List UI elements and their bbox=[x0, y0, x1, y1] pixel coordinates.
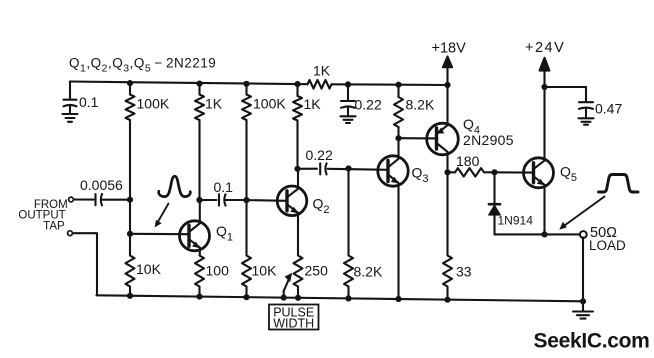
wire: node to Q4 base bbox=[399, 137, 437, 139]
terminal: FROM input bbox=[69, 197, 74, 202]
node dot: rail/+18V bbox=[444, 82, 450, 88]
node dot: Q4 collector node bbox=[444, 169, 450, 175]
node dot: rail/ground bbox=[580, 298, 586, 304]
arrow: spike to Q1 base bbox=[158, 204, 169, 223]
node dot: Q1 base node bbox=[127, 231, 133, 237]
node dot: Q5 emitter node bbox=[541, 231, 547, 237]
label: PULSE WIDTH box bbox=[269, 305, 319, 331]
transistor Q3 bbox=[378, 138, 408, 299]
svg-text:8.2K: 8.2K bbox=[354, 264, 383, 280]
diode 1N914 bbox=[489, 172, 500, 234]
node dot: rail/1K#2 bbox=[294, 81, 300, 87]
ground (under C 0.22) bbox=[341, 115, 356, 117]
svg-text:Q1,Q2,Q3,Q5 − 2N2219: Q1,Q2,Q3,Q5 − 2N2219 bbox=[69, 56, 216, 75]
svg-text:1K: 1K bbox=[304, 96, 322, 112]
wire: cap to node bbox=[102, 199, 130, 201]
wire: node to Q1 base bbox=[130, 233, 188, 235]
svg-text:+18V: +18V bbox=[432, 41, 467, 57]
svg-text:LOAD: LOAD bbox=[589, 238, 626, 253]
capacitor C 0.47 bbox=[585, 87, 587, 102]
node dot: rail/wiper bbox=[281, 295, 287, 301]
capacitor C 0.0056 bbox=[94, 194, 96, 205]
wire: load to ground rail bbox=[582, 237, 584, 301]
wire: input to cap bbox=[74, 198, 94, 200]
node dot: rail/8.2K#2 bbox=[345, 295, 351, 301]
resistor 8.2K (lower) bbox=[347, 169, 349, 256]
capacitor C 0.22 (interstage) bbox=[319, 163, 321, 174]
node dot: rail/0.22 bbox=[345, 81, 351, 87]
svg-text:180: 180 bbox=[456, 153, 480, 169]
node dot: rail/33 bbox=[444, 297, 450, 303]
node dot: rail/250 bbox=[295, 295, 301, 301]
node dot: +24V/0.47 bbox=[541, 84, 547, 90]
svg-text:0.0056: 0.0056 bbox=[80, 177, 123, 193]
node dot: rail/8.2K bbox=[395, 82, 401, 88]
svg-text:100K: 100K bbox=[137, 96, 170, 112]
wire: branch 1 vertical bbox=[129, 120, 131, 256]
svg-text:33: 33 bbox=[456, 264, 472, 280]
resistor 100 (Q1 emitter) bbox=[195, 256, 204, 287]
ground (under C 0.47) bbox=[579, 117, 594, 119]
wire: Q2 collector line to Q3 base bbox=[298, 168, 318, 170]
svg-text:TAP: TAP bbox=[43, 221, 65, 233]
node dot: rail/1K bbox=[196, 81, 202, 87]
resistor 100K (first branch) bbox=[129, 83, 131, 94]
waveform: spike pulse near Q1 bbox=[159, 176, 191, 196]
svg-text:WIDTH: WIDTH bbox=[273, 317, 314, 331]
svg-text:2N2905: 2N2905 bbox=[463, 132, 514, 148]
wire: node to Q2 base bbox=[247, 199, 288, 202]
arrow: pulse to load wire bbox=[565, 197, 605, 226]
svg-text:0.22: 0.22 bbox=[306, 147, 333, 163]
node dot: Q4 base node bbox=[395, 135, 401, 141]
svg-text:10K: 10K bbox=[252, 263, 278, 279]
svg-text:0.1: 0.1 bbox=[79, 94, 99, 110]
svg-text:SeekIC.com: SeekIC.com bbox=[534, 330, 650, 353]
resistor 180 bbox=[448, 171, 456, 173]
svg-text:1N914: 1N914 bbox=[498, 214, 534, 228]
capacitor C 0.1 (interstage) bbox=[218, 194, 220, 205]
resistor 1K (second branch) bbox=[198, 84, 200, 95]
wire: top supply rail right section bbox=[332, 83, 448, 86]
ground (main, rail right end) bbox=[582, 301, 584, 311]
svg-text:Q3: Q3 bbox=[412, 165, 429, 186]
wire: bottom ground rail bbox=[97, 295, 584, 301]
resistor 10K (first branch bottom) bbox=[126, 256, 135, 287]
transistor Q5 bbox=[524, 87, 554, 234]
svg-text:Q1: Q1 bbox=[216, 223, 233, 244]
svg-text:250: 250 bbox=[305, 263, 329, 279]
svg-text:100K: 100K bbox=[253, 96, 286, 112]
node dot: Q2 collector node bbox=[294, 166, 300, 172]
node dot: rail/100K#2 bbox=[243, 81, 249, 87]
wire: top supply rail left section bbox=[70, 82, 308, 85]
transistor Q1 bbox=[180, 200, 210, 256]
svg-text:0.22: 0.22 bbox=[355, 97, 382, 113]
resistor 100K (third branch) bbox=[245, 84, 247, 95]
power +24V arrow bbox=[543, 66, 545, 87]
node dot: Q3 base node bbox=[345, 165, 351, 171]
power +18V arrow bbox=[446, 64, 448, 85]
node dot: input cap node bbox=[127, 197, 133, 203]
transistor Q4 (PNP) bbox=[427, 85, 459, 172]
node dot: rail/Q3 emitter bbox=[395, 296, 401, 302]
resistor 10K (third branch bottom) bbox=[242, 256, 251, 287]
potentiometer wiper arrow bbox=[283, 291, 285, 298]
svg-text:1K: 1K bbox=[205, 96, 223, 112]
ground (under C 0.1) bbox=[63, 113, 78, 115]
svg-text:Q5: Q5 bbox=[560, 164, 577, 185]
node dot: rail/100 bbox=[196, 294, 202, 300]
svg-text:0.47: 0.47 bbox=[595, 101, 622, 117]
node dot: Q2 base node bbox=[243, 197, 249, 203]
potentiometer 250 (pulse width) bbox=[294, 256, 303, 287]
wire: diode output to load bbox=[495, 233, 581, 235]
terminal: 50 ohm load output bbox=[580, 231, 587, 238]
wire: TAP to bottom rail bbox=[73, 233, 97, 295]
svg-text:8.2K: 8.2K bbox=[406, 97, 435, 113]
node dot: rail/10K bbox=[127, 293, 133, 299]
svg-text:0.1: 0.1 bbox=[214, 179, 234, 195]
waveform: square pulse near load bbox=[599, 175, 639, 193]
svg-text:Q2: Q2 bbox=[313, 196, 330, 217]
resistor 8.2K (upper) bbox=[397, 85, 399, 97]
resistor 33 bbox=[446, 172, 448, 255]
transistor Q2 bbox=[277, 169, 307, 256]
node dot: Q1 collector node bbox=[196, 197, 202, 203]
node dot: diode top node bbox=[491, 169, 497, 175]
node dot: rail/100K bbox=[127, 80, 133, 86]
svg-text:1K: 1K bbox=[313, 63, 331, 79]
svg-text:100: 100 bbox=[206, 263, 230, 279]
resistor 1K (fourth branch vertical) bbox=[296, 84, 298, 96]
svg-text:+24V: +24V bbox=[525, 40, 565, 56]
capacitor C 0.22 (vertical, to ground) bbox=[347, 84, 349, 100]
terminal: TAP input bbox=[68, 231, 73, 236]
wire: +24V to 0.47 cap bbox=[545, 86, 587, 88]
svg-text:10K: 10K bbox=[136, 261, 162, 277]
node dot: rail/10K#2 bbox=[243, 294, 249, 300]
capacitor C 0.1 (top-left) bbox=[69, 82, 71, 100]
wire: node to Q5 base bbox=[495, 171, 534, 173]
resistor 1K (horizontal, top) bbox=[308, 80, 332, 89]
